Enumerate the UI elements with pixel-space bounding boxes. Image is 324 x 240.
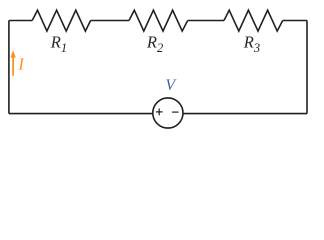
svg-text:I: I	[17, 54, 25, 73]
voltage source V circle	[153, 98, 183, 128]
wire top segment 1	[9, 20, 32, 22]
svg-text:R1: R1	[50, 33, 67, 55]
resistor R1	[32, 10, 90, 31]
current arrow I	[10, 50, 15, 76]
minus terminal	[172, 111, 178, 113]
wire top segment 3	[188, 20, 224, 22]
resistor R3	[224, 10, 283, 31]
wire bottom-left segment	[9, 113, 153, 115]
resistor R2	[129, 10, 188, 31]
wire top segment 2	[91, 20, 129, 22]
svg-text:V: V	[166, 77, 178, 94]
svg-text:R2: R2	[146, 33, 163, 55]
wire top segment 4	[283, 20, 307, 22]
plus terminal	[156, 109, 163, 116]
svg-text:R3: R3	[243, 33, 260, 55]
wire left vertical	[8, 21, 10, 114]
wire bottom-right segment	[183, 113, 307, 115]
wire right vertical	[306, 21, 308, 114]
